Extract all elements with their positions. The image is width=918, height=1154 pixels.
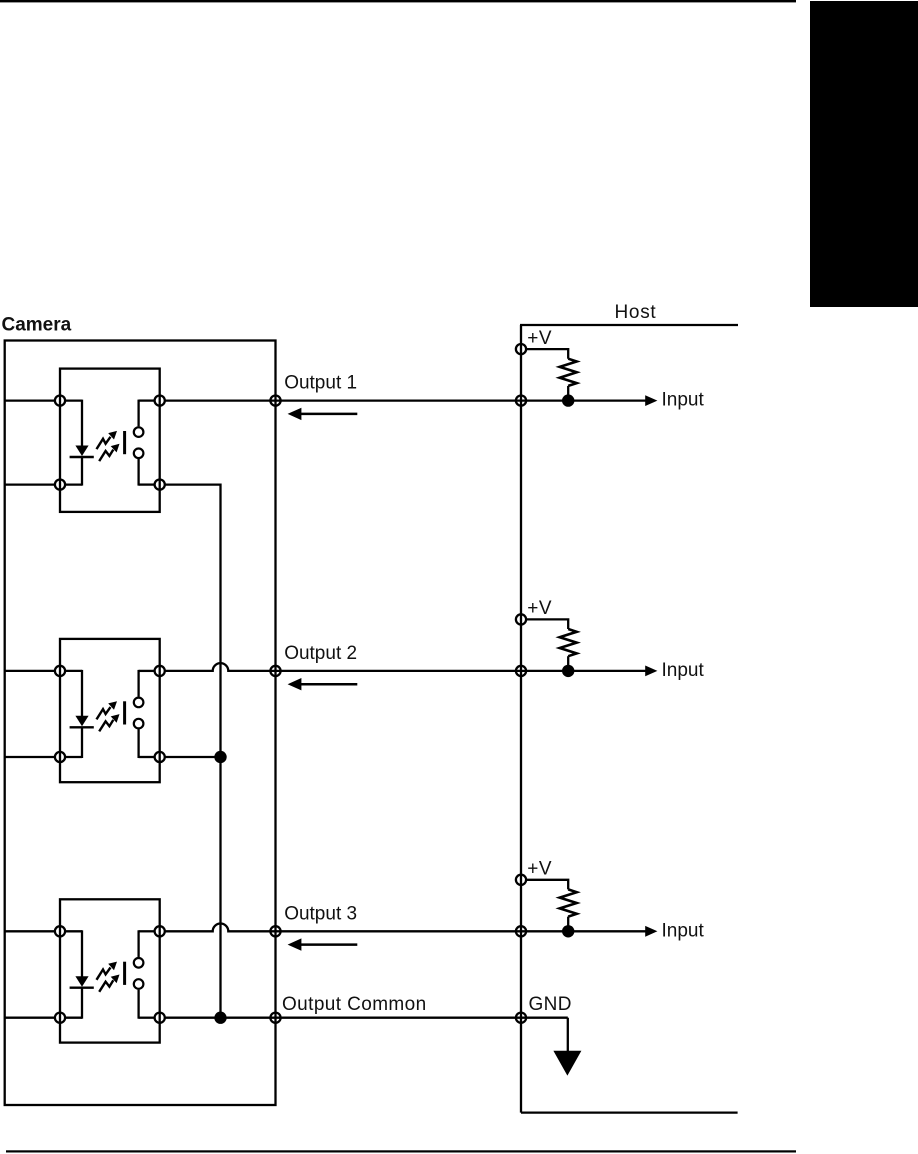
photo-contacts U2: [134, 670, 155, 758]
wire U2 out-bottom to common bus: [165, 756, 220, 758]
light arrows U1: [97, 431, 120, 461]
svg-text:+V: +V: [527, 859, 552, 880]
host top line: [520, 324, 738, 326]
host bottom line: [521, 1111, 738, 1113]
terminal U3 pin anode: [55, 926, 65, 936]
direction arrow row 2: [288, 678, 358, 690]
sidebar block: [810, 1, 918, 307]
direction arrow row 1: [288, 408, 358, 420]
terminal host +V row 3: [516, 875, 526, 885]
LED D1: [66, 400, 94, 486]
label Input 2: [662, 660, 705, 681]
terminal host +V row 1: [516, 344, 526, 354]
svg-text:Host: Host: [615, 302, 657, 323]
node dot R1 to input: [562, 394, 574, 406]
terminal camera Output 2: [270, 666, 280, 676]
terminal host +V row 2: [516, 614, 526, 624]
bottom rule: [6, 1150, 796, 1152]
terminal U1 pin out-top: [155, 396, 165, 406]
light arrows U2: [97, 701, 120, 731]
terminal camera Output 1: [270, 396, 280, 406]
LED D2: [66, 670, 94, 758]
wire Output 1 run: [165, 399, 645, 401]
svg-text:Input: Input: [662, 920, 705, 941]
terminal U2 pin out-bottom: [155, 752, 165, 762]
junction dot common bus row2: [214, 751, 226, 763]
wire Output 3 run: [165, 923, 645, 931]
optocoupler U1 body: [60, 369, 160, 512]
label Output 2: [284, 643, 357, 664]
label Output 1: [284, 373, 357, 394]
svg-text:Camera: Camera: [2, 315, 72, 336]
label +V row 1: [527, 328, 552, 349]
wire camera edge to U2 anode: [5, 670, 55, 672]
terminal U3 pin out-bottom: [155, 1013, 165, 1023]
camera enclosure box: [5, 341, 276, 1106]
wire Output 2 run: [165, 663, 645, 671]
svg-text:Input: Input: [662, 390, 705, 411]
wire camera edge to U3 anode: [5, 930, 55, 932]
junction dot common bus row3: [214, 1012, 226, 1024]
terminal host row 1: [516, 396, 526, 406]
svg-text:+V: +V: [527, 328, 552, 349]
svg-text:Output 1: Output 1: [284, 373, 357, 394]
LED D3: [66, 930, 94, 1018]
host rail (vertical): [520, 325, 522, 1113]
label Camera: [2, 315, 72, 336]
wire camera edge to U1 anode: [5, 399, 55, 401]
terminal U1 pin cathode: [55, 480, 65, 490]
label GND: [529, 994, 572, 1015]
light arrows U3: [97, 962, 120, 992]
svg-text:+V: +V: [527, 598, 552, 619]
terminal U3 pin cathode: [55, 1013, 65, 1023]
terminal camera Output Common: [270, 1013, 280, 1023]
terminal U2 pin out-top: [155, 666, 165, 676]
terminal U3 pin out-top: [155, 926, 165, 936]
terminal host row 2: [516, 666, 526, 676]
wire camera edge to U1 cathode: [5, 483, 55, 485]
svg-text:Output 2: Output 2: [284, 643, 357, 664]
direction arrow row 3: [288, 938, 358, 950]
wire camera edge to U3 cathode: [5, 1017, 55, 1019]
arrowhead Input 3: [645, 926, 657, 937]
node dot R3 to input: [562, 925, 574, 937]
ground symbol: [553, 1018, 581, 1076]
detector bar U3: [123, 962, 126, 985]
svg-text:Output Common: Output Common: [282, 994, 427, 1015]
optocoupler U2 body: [60, 639, 160, 782]
arrowhead Input 2: [645, 666, 657, 677]
svg-text:Input: Input: [662, 660, 705, 681]
label +V row 3: [527, 859, 552, 880]
label Input 3: [662, 920, 705, 941]
detector bar U2: [123, 701, 126, 724]
terminal U1 pin anode: [55, 396, 65, 406]
label +V row 2: [527, 598, 552, 619]
detector bar U1: [123, 431, 126, 454]
terminal U2 pin anode: [55, 666, 65, 676]
terminal U2 pin cathode: [55, 752, 65, 762]
wire U1 out-bottom to common bus: [165, 485, 220, 1018]
node dot R2 to input: [562, 665, 574, 677]
svg-text:Output 3: Output 3: [284, 903, 357, 924]
resistor R2 pull-up: [527, 619, 577, 671]
terminal camera Output 3: [270, 926, 280, 936]
terminal U1 pin out-bottom: [155, 480, 165, 490]
optocoupler U3 body: [60, 899, 160, 1042]
svg-text:GND: GND: [529, 994, 572, 1015]
label Input 1: [662, 390, 705, 411]
photo-contacts U1: [134, 400, 155, 486]
arrowhead Input 1: [645, 395, 657, 406]
resistor R3 pull-up: [527, 880, 577, 932]
terminal host GND: [516, 1013, 526, 1023]
label Host: [615, 302, 657, 323]
label Output Common: [282, 994, 427, 1015]
wire camera edge to U2 cathode: [5, 756, 55, 758]
top rule: [0, 0, 796, 2]
label Output 3: [284, 903, 357, 924]
terminal host row 3: [516, 926, 526, 936]
wire Output Common run: [165, 1017, 567, 1019]
resistor R1 pull-up: [527, 349, 577, 401]
photo-contacts U3: [134, 930, 155, 1018]
